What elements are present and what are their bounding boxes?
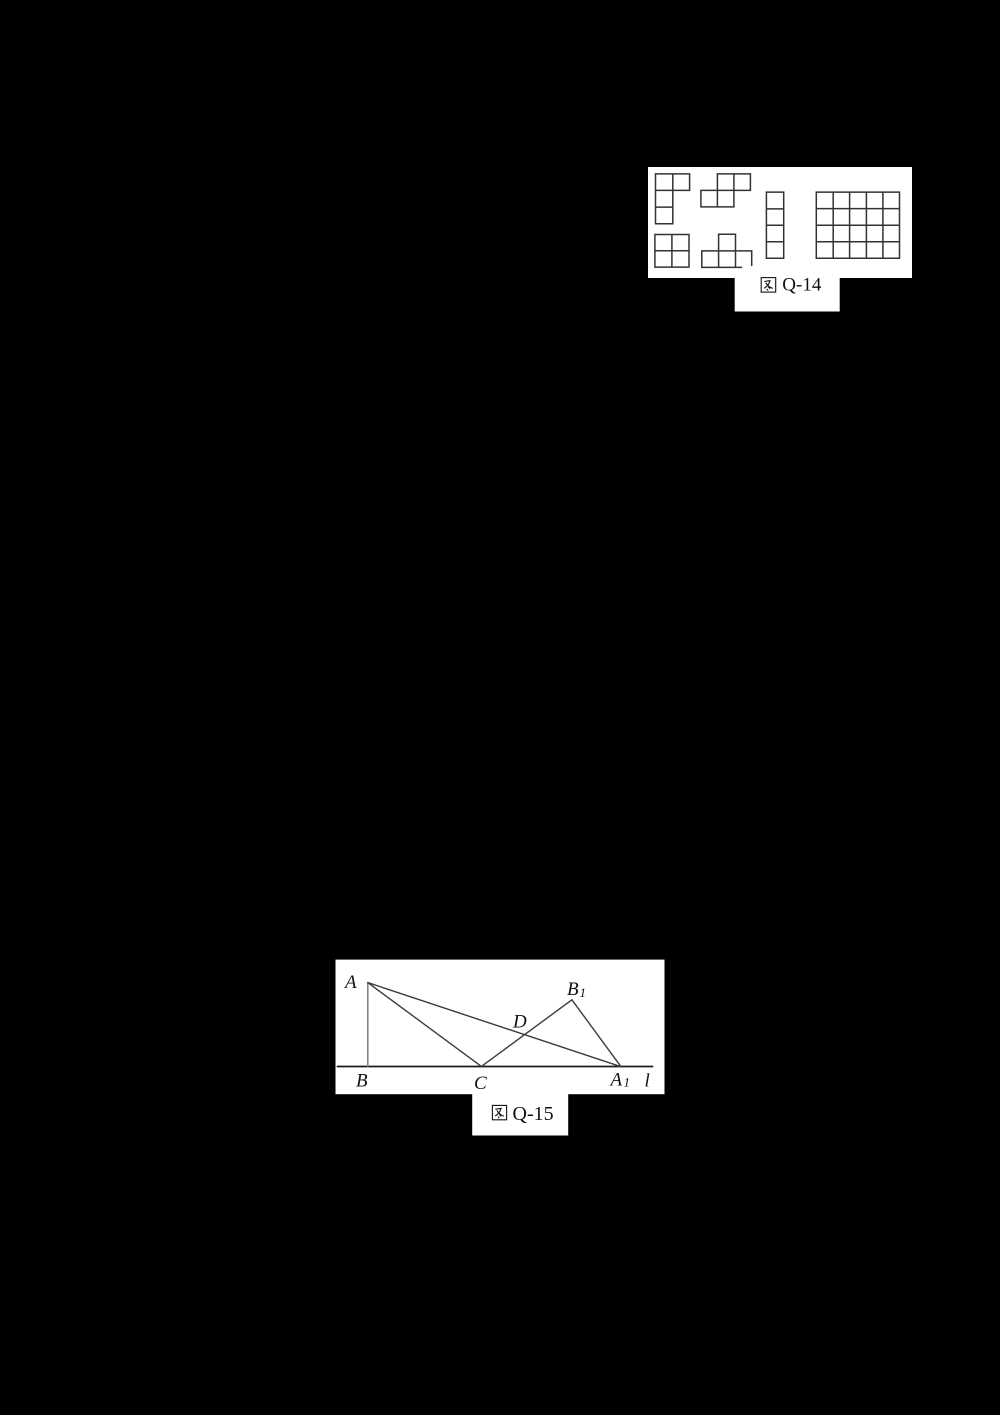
svg-text:1: 1 xyxy=(624,1075,631,1090)
svg-text:Q-14: Q-14 xyxy=(782,275,822,296)
svg-text:l: l xyxy=(645,1071,650,1092)
svg-text:B: B xyxy=(567,979,579,1000)
svg-text:A: A xyxy=(343,972,357,993)
svg-text:D: D xyxy=(512,1012,527,1033)
svg-text:Q-15: Q-15 xyxy=(513,1103,554,1125)
svg-text:A: A xyxy=(609,1070,623,1091)
svg-text:B: B xyxy=(356,1071,368,1092)
svg-text:C: C xyxy=(474,1073,487,1094)
svg-text:1: 1 xyxy=(580,985,587,1000)
